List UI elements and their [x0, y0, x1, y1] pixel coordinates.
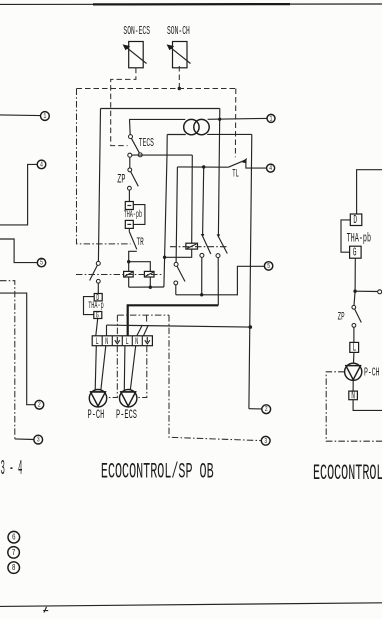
wire box right edge down to contact — [218, 109, 219, 236]
svg-text:4: 4 — [269, 164, 272, 172]
wire below coil B — [128, 277, 130, 287]
wire TL feed row — [177, 166, 228, 168]
terminal 1 right — [267, 114, 275, 122]
wire below coil C — [149, 277, 151, 287]
wire transformer top-left lead — [129, 118, 185, 120]
junction on right edge — [218, 118, 221, 121]
svg-text:THA-pb: THA-pb — [124, 211, 143, 221]
svg-text:8: 8 — [12, 563, 16, 574]
terminal 5 right — [264, 262, 272, 271]
relay coil A — [186, 243, 198, 249]
wire coil bottom row — [129, 286, 164, 288]
wire neutral drop N1 — [106, 325, 108, 336]
relay coil C — [144, 271, 154, 277]
sensor SON-ECS — [123, 42, 147, 68]
wire stub to terminal 2 — [249, 408, 262, 410]
switch TR — [129, 228, 137, 261]
dash-dot linkage through coil A contacts — [170, 246, 229, 248]
svg-text:3 - 4: 3 - 4 — [1, 457, 23, 481]
pump P-CH — [89, 390, 106, 407]
thermostat THA-pb — [125, 202, 145, 229]
contact K1 (left, to THA-p) — [90, 261, 101, 293]
svg-text:ZP: ZP — [117, 172, 125, 187]
right sheet: wire to L box — [353, 327, 355, 342]
bottom rule — [0, 603, 382, 607]
wire neutral bus — [107, 325, 251, 327]
wire box left edge down to THA-p contact — [98, 109, 100, 262]
dashed drop to TL blade — [234, 89, 236, 158]
wire drop from TECS row to coil A — [191, 155, 194, 243]
svg-text:P-CH: P-CH — [364, 365, 380, 379]
pump P-ECS — [120, 390, 137, 407]
dash-dot linkage through coils B C — [76, 274, 164, 276]
svg-text:2: 2 — [38, 401, 41, 409]
svg-text:TR: TR — [137, 235, 145, 249]
wire N1 to pump P-CH — [101, 346, 106, 391]
wire drop TL row to lower contact — [176, 167, 177, 263]
terminal strip — [92, 336, 152, 346]
wire node row to coil A bottom — [165, 249, 192, 257]
legend item 8 — [8, 562, 20, 574]
dash-dot left control line to TR — [77, 89, 131, 244]
wire terminal 5 row — [176, 266, 265, 295]
svg-text:SON-CH: SON-CH — [167, 24, 190, 38]
right sheet: wire pump to N — [352, 380, 354, 391]
box G left — [94, 311, 102, 321]
right sheet: edge contact — [378, 290, 382, 294]
right sheet: box L — [350, 341, 359, 355]
contact K4 (upper pair right) — [216, 234, 227, 305]
terminal 2 right — [262, 405, 271, 414]
dashed bus top — [77, 88, 236, 90]
legend item 7 — [8, 547, 20, 559]
wire long drop to terminal 2 — [249, 134, 252, 408]
right sheet: box N — [349, 388, 358, 402]
sensor SON-CH — [167, 42, 191, 68]
svg-text:P-ECS: P-ECS — [116, 408, 137, 423]
terminal 2 left — [0, 293, 44, 409]
wire riser to node row — [164, 155, 167, 287]
svg-text:D: D — [353, 213, 357, 227]
svg-text:L: L — [353, 341, 357, 355]
wire transformer bottom-left lead — [167, 134, 186, 136]
terminal E1 earth symbol — [115, 337, 120, 344]
svg-text:ECOCONTROL: ECOCONTROL — [313, 461, 382, 486]
dash-dot earth drop E2 — [146, 315, 148, 323]
svg-text:THA-pb: THA-pb — [347, 231, 371, 246]
right sheet: switch ZP — [352, 291, 361, 327]
switch TL — [228, 158, 266, 168]
wire neutral diagonal into N2 — [137, 325, 143, 336]
junction neutral bus — [249, 325, 253, 329]
junction TL row — [202, 165, 205, 168]
right sheet: dash-dot earth — [326, 372, 382, 441]
dash-dot earth drop E1 — [116, 315, 118, 336]
wire TECS output row — [132, 154, 193, 156]
svg-text:6: 6 — [12, 532, 16, 543]
svg-text:4: 4 — [40, 160, 43, 168]
svg-text:SON-ECS: SON-ECS — [123, 24, 150, 38]
svg-text:2: 2 — [265, 405, 268, 413]
terminal E2 earth symbol — [145, 337, 150, 344]
svg-text:ZP: ZP — [338, 311, 345, 324]
wire from transformer bottom-left down to TECS row — [166, 135, 168, 156]
wire diagonal into E2 — [144, 325, 149, 336]
svg-text:3: 3 — [37, 436, 40, 444]
wire box top edge — [101, 108, 220, 110]
switch TECS — [129, 135, 143, 157]
right sheet: junction — [353, 290, 356, 293]
terminal 3 right — [261, 436, 270, 445]
page border top line — [0, 3, 382, 5]
terminal 3 left — [0, 281, 43, 444]
junction SON-CH on dashed bus — [178, 87, 181, 90]
terminal 4 left — [0, 160, 46, 225]
junction node row — [163, 256, 166, 259]
svg-text:THA-p: THA-p — [88, 300, 104, 311]
wire G box to L1 — [96, 319, 98, 336]
junction TR output — [127, 260, 130, 263]
svg-text:5: 5 — [40, 259, 43, 267]
box D left — [94, 294, 102, 304]
svg-text:3: 3 — [264, 437, 267, 445]
right sheet: box G — [350, 246, 362, 260]
transformer U1 — [184, 119, 210, 134]
right sheet: wire G down — [354, 258, 356, 291]
right sheet: pump P-CH — [345, 363, 362, 380]
terminal 4 right — [267, 164, 275, 172]
svg-text:ECOCONTROL/SP OB: ECOCONTROL/SP OB — [101, 460, 214, 485]
junction contact K3 to terminal5 row — [200, 293, 203, 296]
dashed control line from SON-ECS to TECS — [111, 68, 136, 146]
relay coil B — [124, 271, 134, 277]
svg-text:1: 1 — [43, 112, 46, 120]
wire N2 to pump P-ECS — [130, 346, 135, 391]
right sheet: wire top feed — [357, 170, 382, 214]
right sheet: wire to edge contact — [355, 290, 378, 292]
wire drop to TECS — [129, 119, 132, 134]
contact K2 (lower mid) — [174, 262, 185, 294]
svg-text:TECS: TECS — [139, 136, 154, 150]
dash-dot earth to P-ECS — [137, 346, 147, 398]
right sheet: box D — [350, 213, 362, 227]
svg-text:1: 1 — [270, 114, 273, 122]
wire L1 to pump P-CH — [95, 346, 96, 390]
right sheet: wire L to pump — [353, 352, 355, 363]
wire into coil B — [128, 262, 130, 272]
bracket THA-p — [84, 297, 95, 315]
terminal 1 left — [0, 112, 49, 121]
dash-dot earth bus — [117, 314, 169, 316]
svg-text:G: G — [353, 246, 357, 260]
svg-text:TL: TL — [232, 168, 239, 181]
wire transformer top-right lead to terminal 1 — [208, 117, 267, 120]
thick live feed wire to L2 — [128, 305, 219, 336]
svg-text:5: 5 — [267, 262, 270, 270]
svg-text:L: L — [126, 337, 129, 348]
dash-dot earth to P-CH — [107, 346, 117, 398]
contact K3 (upper pair left) — [200, 167, 211, 295]
terminal 5 left — [0, 239, 46, 267]
junction coil bottoms — [149, 286, 152, 289]
svg-text:7: 7 — [12, 548, 16, 559]
right sheet: wire N to edge — [353, 400, 382, 411]
wire L2 to pump P-ECS — [123, 346, 126, 390]
wire coil feed row — [129, 262, 151, 272]
legend item 6 — [8, 531, 20, 543]
switch ZP — [127, 153, 138, 201]
dash-dot drop to terminal 3 line — [169, 315, 261, 441]
right sheet: bracket D-G — [341, 220, 350, 252]
bottom tick mark — [43, 607, 48, 613]
svg-text:G: G — [96, 311, 99, 321]
wire transformer bottom-right lead — [207, 133, 252, 135]
dashed control line from SON-CH — [178, 66, 180, 89]
svg-text:P-CH: P-CH — [87, 408, 104, 423]
